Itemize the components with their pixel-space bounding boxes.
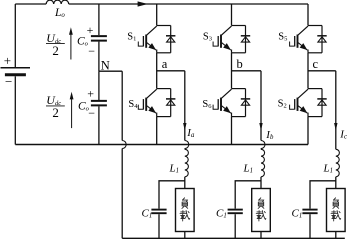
transistor S5 [278, 26, 326, 53]
battery E [1, 53, 31, 89]
load label 负载 phase a [180, 198, 190, 221]
capacitor C0 upper [77, 23, 107, 58]
wire phase b below rail [260, 148, 262, 151]
hop N wire over rail [122, 141, 126, 149]
inductor L1 phase b [243, 149, 265, 177]
node b label [237, 57, 243, 71]
wire load to bottom rail b [260, 232, 262, 239]
node N label [101, 58, 110, 72]
capacitor C1 phase c [292, 208, 318, 220]
wire L1 to load a [184, 177, 186, 189]
node c label [313, 57, 319, 71]
wire top rail right [69, 3, 308, 5]
svg-text:+: + [4, 53, 11, 68]
wire leg1 emitter to rail [156, 117, 158, 145]
wire phase c vertical [335, 71, 337, 150]
wire tee to C1 b [235, 181, 261, 209]
inductor L1 phase a [169, 149, 189, 177]
wire C1 to bottom rail a [158, 214, 160, 238]
wire leg2 top [231, 4, 233, 26]
arrow current Ib [259, 123, 274, 141]
svg-text:a: a [162, 57, 168, 71]
wire phase a vertical [184, 71, 186, 141]
svg-text:2: 2 [52, 105, 59, 120]
wire phase a below rail [184, 148, 186, 151]
svg-text:c: c [313, 57, 319, 71]
wire bottom dc rail [15, 144, 308, 146]
arrow current Ic [334, 123, 347, 141]
capacitor C1 phase b [216, 208, 243, 220]
capacitor C1 phase a [142, 208, 167, 220]
wire load to bottom rail c [335, 232, 337, 239]
transistor S1 [127, 26, 175, 53]
transistor S2 [278, 89, 327, 117]
svg-text:−: − [88, 44, 95, 58]
load label 负载 phase b [256, 198, 266, 221]
wire tee to C1 a [159, 181, 185, 209]
wire leg1 top [156, 4, 158, 26]
label Udc/2 upper [46, 31, 65, 58]
wire C0 chain to rail [98, 106, 100, 144]
load box phase a [176, 189, 195, 232]
wire load to bottom rail a [184, 232, 186, 239]
hop phase a over rail [185, 141, 189, 149]
wire leg3 mid [307, 53, 309, 89]
wire L1 to load b [260, 177, 262, 189]
wire L1 to load c [335, 177, 337, 189]
wire leg2 emitter to rail [231, 117, 233, 145]
inductor L0 [46, 0, 68, 19]
arrow Udc upper [69, 27, 73, 59]
arrow current Ia [183, 123, 195, 139]
transistor S6 [202, 89, 250, 117]
svg-text:−: − [5, 74, 12, 89]
load box phase c [327, 189, 346, 232]
wire C0 mid lower [98, 71, 100, 100]
capacitor C0 lower [78, 86, 107, 120]
node a label [162, 57, 168, 71]
wire phase a horizontal [157, 70, 185, 72]
svg-text:+: + [87, 86, 94, 100]
wire bottom load rail [122, 237, 345, 239]
wire C0 chain upper [98, 4, 100, 35]
wire phase b horizontal [232, 70, 262, 72]
svg-text:N: N [101, 58, 110, 72]
wire C0 mid upper [98, 42, 100, 72]
wire phase c horizontal [308, 70, 336, 72]
arrow top rail [138, 1, 148, 6]
wire N vertical lower [121, 149, 123, 239]
wire battery to bottom rail [14, 76, 16, 144]
wire phase b vertical [260, 71, 262, 141]
wire C1 to bottom rail c [309, 214, 311, 238]
wire node N horizontal [99, 70, 122, 72]
wire tee to C1 c [310, 181, 336, 209]
hop phase b over rail [261, 141, 265, 149]
svg-text:−: − [88, 106, 95, 120]
wire top rail left [15, 3, 46, 5]
svg-text:b: b [237, 57, 243, 71]
label Udc/2 lower [46, 93, 65, 120]
svg-text:2: 2 [52, 43, 59, 58]
wire C1 to bottom rail b [234, 214, 236, 238]
load box phase b [252, 189, 271, 232]
wire leg2 mid [231, 53, 233, 89]
wire leg3 emitter to rail [307, 117, 309, 145]
svg-text:+: + [87, 23, 94, 37]
wire leg3 top [307, 4, 309, 26]
wire battery to top rail [14, 4, 16, 67]
inductor L1 phase c [323, 149, 340, 177]
wire N vertical upper [121, 71, 123, 140]
arrow Udc lower [70, 92, 74, 128]
load label 负载 phase c [331, 198, 341, 221]
transistor S4 [128, 89, 175, 117]
wire leg1 mid [156, 53, 158, 89]
transistor S3 [203, 26, 250, 53]
